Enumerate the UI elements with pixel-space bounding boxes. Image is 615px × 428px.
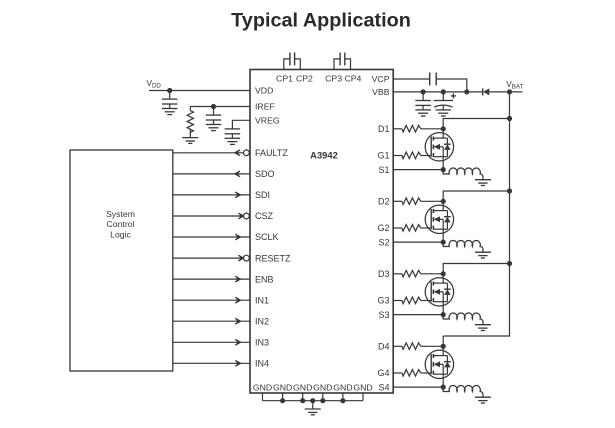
junction VDD bypass bbox=[167, 88, 172, 93]
capacitor C_IREF to ground bbox=[213, 107, 215, 116]
wire R_G3 to gate bbox=[421, 300, 431, 302]
ground GND bus bbox=[305, 408, 321, 410]
junction S3 bbox=[441, 312, 446, 317]
arrowhead SCLK (points right) bbox=[235, 234, 240, 240]
System Control Logic label bbox=[106, 209, 135, 240]
arrowhead ENB (points right) bbox=[235, 276, 240, 282]
wire S1 bbox=[393, 169, 443, 171]
wire source Q1 bbox=[442, 157, 444, 170]
wire G1 bbox=[393, 155, 402, 157]
inductor L4 bbox=[443, 386, 483, 398]
wire CP1 bbox=[284, 59, 290, 70]
wire VREG bbox=[232, 119, 250, 121]
junction VBB c1 bbox=[421, 89, 426, 94]
wire SDO bbox=[173, 173, 250, 175]
wire IN2 bbox=[173, 320, 250, 322]
wire D4 bbox=[393, 345, 402, 347]
svg-text:G2: G2 bbox=[377, 223, 389, 233]
svg-text:CP2: CP2 bbox=[296, 73, 313, 83]
junction rail ch3 bbox=[507, 261, 512, 266]
wire R_G2 to gate bbox=[421, 227, 431, 229]
svg-text:D1: D1 bbox=[378, 124, 390, 134]
svg-text:VBB: VBB bbox=[372, 87, 390, 97]
wire R_G4 to gate bbox=[421, 372, 431, 374]
arrowhead CSZ (points right) bbox=[238, 213, 243, 219]
junction D1 bbox=[441, 126, 446, 131]
junction D2 bbox=[441, 199, 446, 204]
inductor L1 bbox=[443, 168, 483, 180]
inductor L3 bbox=[443, 313, 483, 325]
svg-text:IN2: IN2 bbox=[255, 316, 269, 326]
svg-text:GND: GND bbox=[353, 383, 372, 393]
transistor Q4 bbox=[425, 350, 453, 378]
junction S1 bbox=[441, 167, 446, 172]
svg-text:Typical Application: Typical Application bbox=[231, 9, 411, 31]
arrowhead IN2 (points right) bbox=[235, 318, 240, 324]
wire diode to VBAT bbox=[489, 91, 522, 93]
svg-text:Control: Control bbox=[106, 219, 134, 229]
svg-text:S3: S3 bbox=[378, 310, 389, 320]
resistor R_G2 bbox=[402, 225, 421, 232]
resistor R_G3 bbox=[402, 297, 421, 304]
wire drain corner ch1 bbox=[443, 119, 509, 129]
junction rail ch1 bbox=[507, 116, 512, 121]
wire VCP to VBB bbox=[436, 79, 467, 92]
svg-text:G3: G3 bbox=[377, 296, 389, 306]
wire D1 bbox=[393, 128, 402, 130]
wire drain into MOSFET Q3 bbox=[442, 274, 444, 283]
inductor L2 bbox=[443, 241, 483, 253]
svg-text:D2: D2 bbox=[378, 197, 390, 207]
wire D2 bbox=[393, 200, 402, 202]
svg-text:ENB: ENB bbox=[255, 274, 274, 284]
svg-text:CP3: CP3 bbox=[325, 73, 342, 83]
arrowhead RESETZ (points right) bbox=[238, 255, 243, 261]
arrowhead IN3 (points right) bbox=[235, 340, 240, 346]
wire drain corner ch3 bbox=[443, 264, 509, 274]
wire SCLK bbox=[173, 236, 250, 238]
bubble CSZ bbox=[244, 213, 250, 219]
capacitor C_VBB1 to ground bbox=[422, 92, 424, 101]
capacitor C_VDD to ground bbox=[169, 91, 171, 100]
junction GND bus 1 bbox=[280, 398, 285, 403]
resistor R_D4 bbox=[402, 343, 421, 350]
wire G2 bbox=[393, 227, 402, 229]
svg-text:S2: S2 bbox=[378, 237, 389, 247]
wire IN4 bbox=[173, 362, 250, 364]
ground under L4 bbox=[475, 396, 491, 398]
resistor R_G4 bbox=[402, 370, 421, 377]
svg-text:System: System bbox=[106, 209, 135, 219]
wire VDD bbox=[149, 90, 250, 92]
arrowhead FAULTZ (points left) bbox=[235, 150, 240, 156]
junction S2 bbox=[441, 240, 446, 245]
junction rail ch2 bbox=[507, 188, 512, 193]
svg-text:GND: GND bbox=[253, 383, 272, 393]
junction GND center bbox=[310, 398, 315, 403]
svg-text:RESETZ: RESETZ bbox=[255, 253, 291, 263]
wire source Q3 bbox=[442, 302, 444, 315]
wire IN3 bbox=[173, 341, 250, 343]
resistor R_D2 bbox=[402, 198, 421, 205]
wire IREF bbox=[190, 106, 250, 108]
wire IN1 bbox=[173, 299, 250, 301]
svg-text:SCLK: SCLK bbox=[255, 232, 279, 242]
arrowhead SDO (points left) bbox=[235, 171, 240, 177]
svg-text:VREG: VREG bbox=[255, 116, 280, 126]
junction VBB c2 bbox=[441, 89, 446, 94]
wire S4 bbox=[393, 386, 443, 388]
junction D4 bbox=[441, 344, 446, 349]
junction VBAT bbox=[507, 89, 512, 94]
junction D3 bbox=[441, 271, 446, 276]
wire G4 bbox=[393, 372, 402, 374]
wire S2 bbox=[393, 241, 443, 243]
resistor R_D1 bbox=[402, 125, 421, 132]
capacitor C_VBB2 polarized to ground bbox=[442, 92, 444, 101]
svg-text:GND: GND bbox=[333, 383, 352, 393]
wire G3 bbox=[393, 300, 402, 302]
diode D_BAT bbox=[483, 88, 490, 95]
capacitor C_VCP plates bbox=[429, 73, 431, 86]
wire R_G1 to gate bbox=[421, 155, 431, 157]
wire R_D4 to drain bbox=[421, 345, 443, 347]
wire VBB bbox=[393, 91, 483, 93]
junction GND bus 4 bbox=[340, 398, 345, 403]
junction GND bus 2 bbox=[300, 398, 305, 403]
wire D3 bbox=[393, 273, 402, 275]
resistor R_G1 bbox=[402, 152, 421, 159]
ground under L3 bbox=[475, 324, 491, 326]
svg-text:CSZ: CSZ bbox=[255, 211, 274, 221]
svg-text:SDI: SDI bbox=[255, 190, 270, 200]
arrowhead IN1 (points right) bbox=[235, 297, 240, 303]
svg-text:GND: GND bbox=[293, 383, 312, 393]
wire drain corner ch2 bbox=[443, 191, 509, 201]
svg-text:CP1: CP1 bbox=[276, 73, 293, 83]
svg-text:IN4: IN4 bbox=[255, 359, 269, 369]
wire source Q4 bbox=[442, 374, 444, 387]
transistor Q3 bbox=[425, 278, 453, 306]
wire R_D3 to drain bbox=[421, 273, 443, 275]
capacitor C_CP12 plates bbox=[289, 53, 291, 66]
wire drain into MOSFET Q4 bbox=[442, 346, 444, 355]
ground under L2 bbox=[475, 251, 491, 253]
wire R_D2 to drain bbox=[421, 200, 443, 202]
svg-text:FAULTZ: FAULTZ bbox=[255, 148, 288, 158]
svg-text:IREF: IREF bbox=[255, 102, 275, 112]
svg-text:VDD: VDD bbox=[255, 86, 273, 96]
IC U1 A3942 box bbox=[250, 70, 393, 394]
svg-text:GND: GND bbox=[273, 383, 292, 393]
transistor Q2 bbox=[425, 205, 453, 233]
wire VBAT rail bbox=[443, 92, 509, 336]
resistor R_IREF bbox=[187, 107, 193, 138]
junction GND bus 3 bbox=[320, 398, 325, 403]
bubble FAULTZ bbox=[244, 150, 250, 156]
transistor Q1 bbox=[425, 133, 453, 161]
bubble RESETZ bbox=[244, 255, 250, 261]
wire CP4 bbox=[345, 59, 351, 70]
svg-text:GND: GND bbox=[313, 383, 332, 393]
wire CSZ bbox=[173, 215, 250, 217]
wire VCP bbox=[393, 78, 430, 80]
svg-text:D4: D4 bbox=[378, 342, 390, 352]
wire CP3 bbox=[334, 59, 340, 70]
svg-text:S1: S1 bbox=[378, 165, 389, 175]
svg-text:IN3: IN3 bbox=[255, 338, 269, 348]
wire S3 bbox=[393, 314, 443, 316]
wire SDI bbox=[173, 194, 250, 196]
svg-text:S4: S4 bbox=[378, 382, 389, 392]
svg-text:CP4: CP4 bbox=[344, 73, 361, 83]
svg-text:Logic: Logic bbox=[110, 230, 131, 240]
wire R_D1 to drain bbox=[421, 128, 443, 130]
svg-text:SDO: SDO bbox=[255, 169, 275, 179]
svg-text:G4: G4 bbox=[377, 368, 389, 378]
wire source Q2 bbox=[442, 229, 444, 242]
junction VCP-VBB bbox=[464, 89, 469, 94]
svg-text:A3942: A3942 bbox=[310, 149, 338, 160]
wire CP2 bbox=[295, 59, 301, 70]
wire drain into MOSFET Q2 bbox=[442, 201, 444, 210]
junction IREF bbox=[211, 104, 216, 109]
arrowhead SDI (points right) bbox=[235, 192, 240, 198]
capacitor C_CP34 plates bbox=[339, 53, 341, 66]
svg-text:IN1: IN1 bbox=[255, 295, 269, 305]
ground under R_IREF bbox=[182, 137, 198, 139]
wire FAULTZ bbox=[173, 152, 250, 154]
junction S4 bbox=[441, 385, 446, 390]
arrowhead IN4 (points right) bbox=[235, 361, 240, 367]
wire GND bus bbox=[263, 393, 364, 409]
svg-text:D3: D3 bbox=[378, 269, 390, 279]
svg-text:VCP: VCP bbox=[372, 74, 390, 84]
wire drain corner ch4 bbox=[442, 336, 444, 346]
resistor R_D3 bbox=[402, 270, 421, 277]
wire ENB bbox=[173, 278, 250, 280]
wire drain into MOSFET Q1 bbox=[442, 129, 444, 138]
capacitor C_VREG to ground bbox=[231, 120, 233, 129]
wire RESETZ bbox=[173, 257, 250, 259]
svg-text:G1: G1 bbox=[377, 151, 389, 161]
System Control Logic box bbox=[70, 150, 173, 371]
ground under L1 bbox=[475, 179, 491, 181]
